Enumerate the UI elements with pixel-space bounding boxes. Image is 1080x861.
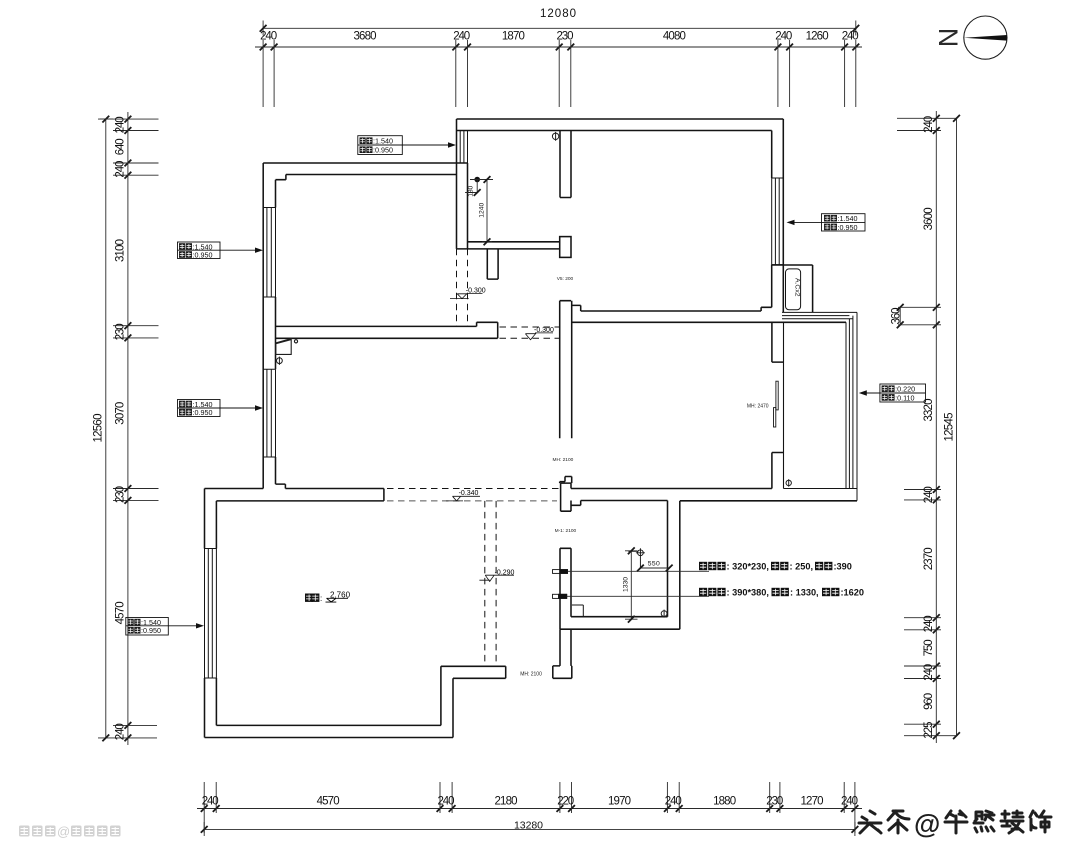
svg-text:12560: 12560	[93, 414, 105, 443]
bedroom-balcony wall	[772, 322, 784, 488]
svg-text:750: 750	[923, 639, 935, 656]
svg-text::0.950: :0.950	[141, 626, 161, 635]
balcony inner boundary	[784, 322, 847, 488]
svg-text:640: 640	[115, 138, 127, 155]
window label box L4	[178, 400, 260, 417]
entry west wall below window	[457, 163, 468, 249]
svg-text:4570: 4570	[317, 796, 340, 808]
entry west window	[457, 131, 468, 164]
entry south wall	[457, 242, 560, 249]
svg-text:240: 240	[923, 486, 935, 503]
east wall inner below window	[771, 265, 773, 308]
balcony north multi-lines	[782, 312, 857, 318]
window label box L6 living room	[126, 618, 201, 636]
svg-text:240: 240	[923, 664, 935, 681]
window W2 top-left bedroom	[263, 208, 275, 298]
svg-text:: 1330,: : 1330,	[790, 588, 819, 598]
svg-text:1260: 1260	[806, 31, 829, 43]
svg-text:: 250,: : 250,	[790, 562, 814, 572]
svg-text:1270: 1270	[801, 796, 824, 808]
svg-text:230: 230	[766, 796, 783, 808]
wall below bathroom	[560, 629, 571, 666]
drain circle hall top	[552, 132, 558, 141]
band lower line	[216, 500, 384, 502]
svg-text:A.Cx2: A.Cx2	[794, 278, 801, 297]
svg-text:240: 240	[115, 116, 127, 133]
bathroom south wall	[560, 617, 680, 630]
top segment dimension line	[255, 46, 862, 48]
balcony sill bottom	[846, 488, 857, 490]
living room SE step walls	[441, 666, 506, 737]
strong current leader	[567, 595, 709, 597]
svg-text:960: 960	[923, 693, 935, 710]
dim 1330	[625, 547, 638, 622]
svg-text:3070: 3070	[115, 402, 127, 425]
svg-text::0.950: :0.950	[838, 223, 858, 232]
bottom segment dimension line	[197, 808, 862, 810]
svg-text::0.950: :0.950	[373, 146, 393, 155]
svg-text:V5: 200: V5: 200	[557, 276, 574, 282]
level mark -0.300 hall	[450, 293, 483, 298]
svg-text:MH: 2100: MH: 2100	[553, 457, 574, 463]
level mark -0.300 corridor	[525, 333, 553, 340]
left extension lines	[100, 119, 159, 738]
north arrow needle	[964, 35, 1007, 41]
strong current text	[699, 588, 864, 598]
svg-text:240: 240	[115, 161, 127, 178]
svg-text::1.540: :1.540	[838, 214, 858, 223]
east exterior wall upper	[772, 119, 784, 265]
svg-text:12545: 12545	[944, 413, 956, 442]
balcony east multi-lines	[846, 312, 857, 500]
svg-text:3680: 3680	[354, 31, 377, 43]
ceiling point circle 550	[628, 548, 645, 568]
switch dot near entry	[474, 177, 480, 183]
svg-text:360: 360	[890, 308, 902, 325]
svg-text:3100: 3100	[115, 239, 127, 262]
svg-text:1870: 1870	[502, 31, 525, 43]
svg-text:: 320*230,: : 320*230,	[727, 562, 769, 572]
door leaf middle-left room	[276, 339, 298, 355]
svg-text:230: 230	[557, 31, 574, 43]
strong current box	[553, 594, 567, 598]
window label box L3	[790, 214, 865, 231]
window label box L2	[358, 136, 453, 155]
drain circle bathroom	[661, 610, 667, 618]
band upper line left section	[205, 489, 384, 501]
svg-text:240: 240	[923, 116, 935, 133]
svg-text:@: @	[57, 824, 70, 839]
level mark -0.290	[479, 575, 514, 581]
dim 1240	[482, 176, 492, 245]
left wall bottom step	[276, 484, 286, 488]
svg-text:2180: 2180	[495, 796, 518, 808]
bedroom west wall lower piece	[560, 477, 572, 484]
bottom extension lines	[204, 782, 855, 833]
svg-text:240: 240	[923, 615, 935, 632]
AC unit rounded box	[786, 269, 801, 310]
right extension lines	[897, 118, 957, 735]
svg-text:240: 240	[202, 796, 219, 808]
层高 2.760 label	[305, 594, 313, 602]
top dim ticks	[260, 44, 267, 51]
svg-text::390: :390	[834, 562, 852, 572]
dashed opening top-left bedroom east	[457, 249, 468, 327]
middle band wall (room1/room2)	[276, 322, 498, 338]
svg-text:12080: 12080	[540, 8, 576, 20]
window label box L5 balcony	[863, 384, 926, 402]
band lower line dashed opening	[387, 500, 557, 502]
svg-text:-0.340: -0.340	[459, 490, 479, 497]
svg-text:4570: 4570	[115, 601, 127, 624]
right segment dimension line	[935, 111, 937, 743]
weak current leader	[568, 570, 710, 572]
top-left bedroom top wall	[263, 163, 467, 180]
bathroom corner notch	[572, 605, 583, 617]
top exterior wall	[457, 119, 784, 163]
dashed opening middle band	[500, 327, 560, 338]
svg-text:1330: 1330	[623, 577, 630, 592]
svg-text::0.950: :0.950	[193, 408, 213, 417]
svg-text:13280: 13280	[514, 820, 543, 832]
svg-text::1620: :1620	[841, 588, 865, 598]
svg-text:1880: 1880	[713, 796, 736, 808]
svg-text:240: 240	[842, 31, 859, 43]
svg-text:4080: 4080	[663, 31, 686, 43]
svg-text:@: @	[914, 809, 940, 839]
left dim ticks	[125, 116, 132, 123]
top hall partition wall	[560, 131, 571, 198]
right dim ticks	[933, 115, 940, 122]
svg-text::1.540: :1.540	[373, 137, 393, 146]
svg-text:240: 240	[453, 31, 470, 43]
window W5 east	[772, 178, 784, 265]
weak current text	[699, 562, 852, 572]
svg-text:240: 240	[665, 796, 682, 808]
svg-text::0.950: :0.950	[193, 250, 213, 259]
bottom overall dimension line 13280	[204, 822, 855, 836]
living room south wall	[205, 725, 454, 737]
svg-text:-0.290: -0.290	[495, 569, 515, 576]
svg-text:240: 240	[115, 723, 127, 740]
hall jamb at band	[561, 483, 581, 511]
svg-text:1970: 1970	[608, 796, 631, 808]
svg-text:240: 240	[841, 796, 858, 808]
window W4 living room	[205, 549, 217, 679]
svg-text:180: 180	[467, 185, 474, 196]
left overall dimension line 12560	[98, 119, 113, 738]
sliding door panel 2	[774, 408, 776, 427]
dim 360 mini line	[899, 307, 901, 325]
drain circle room2	[277, 357, 283, 365]
hall south wall foot	[553, 666, 572, 678]
bathroom west wall	[560, 548, 571, 629]
top-left bedroom left wall	[263, 163, 275, 489]
right overall dimension line 12545	[956, 118, 958, 735]
entry south wall jamb	[560, 237, 571, 258]
svg-text:240: 240	[260, 31, 277, 43]
svg-text:550: 550	[648, 560, 660, 567]
svg-text:240: 240	[775, 31, 792, 43]
svg-text::: :	[320, 594, 322, 603]
band lower line right section	[581, 500, 857, 502]
living room west wall	[205, 489, 217, 738]
bottom dim ticks	[201, 805, 208, 812]
window W3 middle-left bedroom	[263, 369, 275, 457]
drain circle balcony	[786, 479, 791, 487]
dim 550	[637, 565, 673, 572]
middle-right bedroom west wall	[560, 301, 572, 439]
svg-text:MH: 2470: MH: 2470	[747, 403, 769, 409]
watermark bottom-right 头条@华然装饰	[859, 811, 1051, 833]
dim 180	[465, 180, 493, 196]
left segment dimension line	[127, 112, 129, 745]
top overall dimension line 12080	[263, 21, 856, 36]
svg-text:M-1: 2100: M-1: 2100	[555, 528, 577, 534]
svg-text:240: 240	[438, 796, 455, 808]
north arrow circle	[964, 16, 1007, 59]
level mark -0.340	[446, 496, 480, 501]
sliding door panel 1	[776, 381, 778, 410]
svg-text:1240: 1240	[478, 202, 485, 217]
svg-text:-0.300: -0.300	[466, 288, 486, 295]
svg-text:-0.300: -0.300	[534, 327, 554, 334]
svg-text:MH: 2100: MH: 2100	[520, 671, 542, 677]
band upper line dashed opening	[387, 488, 559, 490]
svg-text:: 390*380,: : 390*380,	[727, 588, 769, 598]
svg-text:225: 225	[923, 722, 935, 739]
stub wall below entry	[487, 249, 498, 279]
weak current box	[553, 570, 568, 574]
svg-text:230: 230	[115, 486, 127, 503]
bathroom east wall	[668, 501, 680, 630]
middle-right bedroom north edge	[572, 321, 846, 323]
svg-text:2370: 2370	[923, 547, 935, 570]
svg-text:220: 220	[557, 796, 574, 808]
AC platform	[772, 265, 813, 312]
watermark bottom-left faint	[19, 824, 121, 839]
window label box L1	[178, 242, 260, 259]
bedroom south edge	[571, 488, 772, 490]
svg-text::0.220: :0.220	[895, 385, 915, 394]
svg-text:N: N	[934, 28, 964, 48]
top extension lines	[263, 40, 856, 107]
svg-text::0.110: :0.110	[895, 393, 914, 402]
dashed opening living room vertical	[485, 501, 496, 666]
top-right room south edge w/ steps	[560, 301, 772, 311]
svg-text:3600: 3600	[923, 207, 935, 230]
svg-text:230: 230	[115, 323, 127, 340]
